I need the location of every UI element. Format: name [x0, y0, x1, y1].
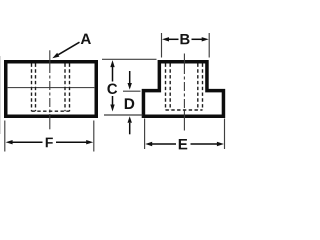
dimension B extension lines: [161, 33, 163, 58]
dimension D upper arrow: [129, 71, 131, 84]
right view hidden hole lines: [166, 64, 203, 111]
left view hidden hole lines: [32, 64, 70, 112]
dimension C line and arrows: [112, 67, 114, 82]
dimension F extension lines: [4, 121, 6, 152]
right view vertical centerline: [183, 54, 185, 131]
label A text: [81, 34, 91, 44]
left view vertical centerline: [49, 50, 51, 129]
left view outline: [6, 62, 97, 117]
label F text: [46, 138, 53, 148]
label D text: [125, 98, 134, 109]
label A leader: [52, 42, 79, 58]
label E text: [179, 139, 187, 149]
scan edge artifact: [0, 56, 2, 134]
dimension B line and arrows: [169, 38, 203, 40]
dimension D lower arrow: [128, 116, 132, 123]
dimension E extension lines: [144, 119, 146, 150]
dimension E line and arrows: [152, 143, 218, 145]
dimension D step extension line: [123, 90, 141, 92]
label C text: [107, 84, 117, 95]
dimension C top extension line: [102, 58, 157, 60]
dimension F line and arrows: [12, 141, 87, 143]
label B text: [180, 34, 189, 44]
right view T outline: [143, 62, 223, 117]
left view horizontal centerline: [7, 87, 95, 89]
bottom bridge extension line: [104, 114, 143, 116]
